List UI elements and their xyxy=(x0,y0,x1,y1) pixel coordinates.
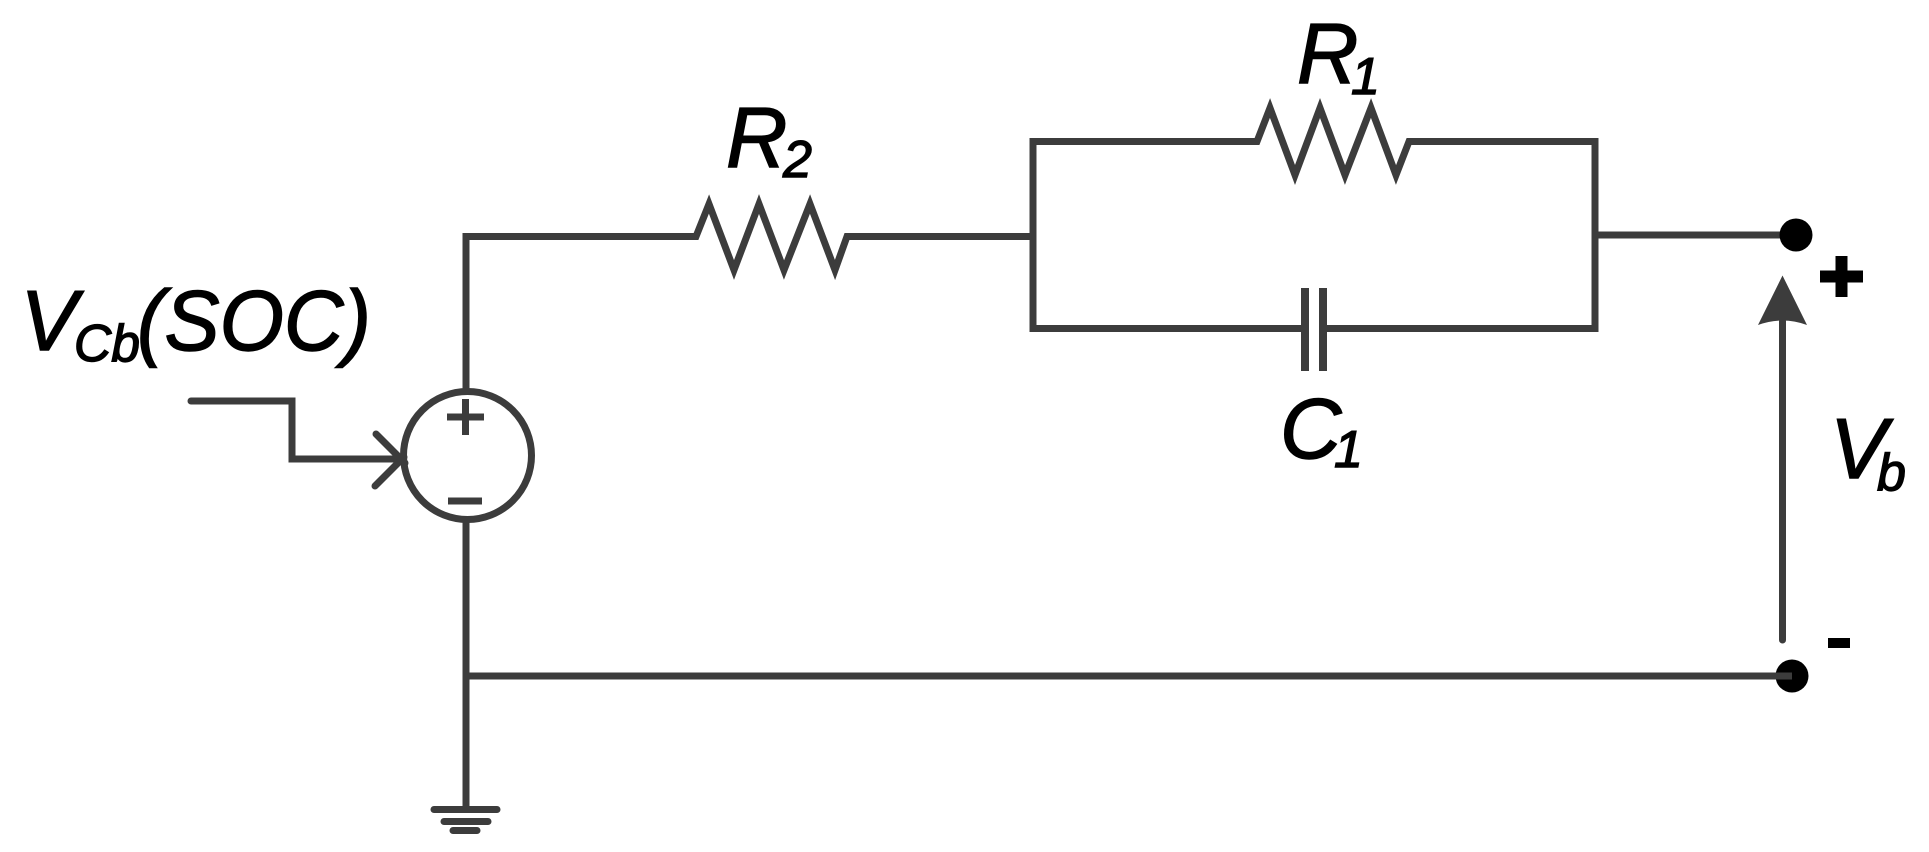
svg-text:C: C xyxy=(1280,382,1342,477)
label R2 xyxy=(726,91,812,189)
wire from block to positive terminal xyxy=(1595,232,1790,239)
label - (negative terminal) xyxy=(1828,638,1850,648)
resistor R1 xyxy=(1252,108,1414,175)
node negative terminal dot xyxy=(1776,660,1809,693)
wire input control arrow xyxy=(191,401,405,486)
wire from source top to node A corner xyxy=(466,237,696,392)
label R1 xyxy=(1297,7,1380,106)
svg-text:b: b xyxy=(1877,444,1906,502)
ground xyxy=(434,810,497,831)
svg-text:Cb: Cb xyxy=(74,315,140,373)
label + (positive terminal) xyxy=(1820,256,1863,297)
minus polarity mark inside source xyxy=(448,498,482,505)
resistor R2 xyxy=(691,204,852,270)
svg-text:1: 1 xyxy=(1351,48,1380,106)
wire from source bottom to ground xyxy=(463,520,470,809)
parallel block frame (R1 C1 loop) xyxy=(1030,142,1599,329)
label C1 xyxy=(1280,382,1363,479)
svg-text:2: 2 xyxy=(782,131,812,189)
label Vb xyxy=(1830,402,1906,502)
svg-text:R: R xyxy=(1297,7,1358,102)
node positive terminal dot xyxy=(1780,219,1813,252)
wire bottom return xyxy=(466,673,1792,680)
svg-text:(SOC): (SOC) xyxy=(137,274,371,369)
arrow Vb (voltage measurement) xyxy=(1758,276,1807,641)
svg-text:1: 1 xyxy=(1334,421,1363,479)
capacitor C1 xyxy=(1305,288,1323,371)
plus polarity mark inside source xyxy=(447,399,484,435)
svg-text:R: R xyxy=(726,91,787,186)
label V_Cb(SOC) xyxy=(21,274,372,373)
voltage source V_Cb (dependent source) xyxy=(404,392,532,520)
wire from R2 to parallel block xyxy=(847,233,1033,240)
